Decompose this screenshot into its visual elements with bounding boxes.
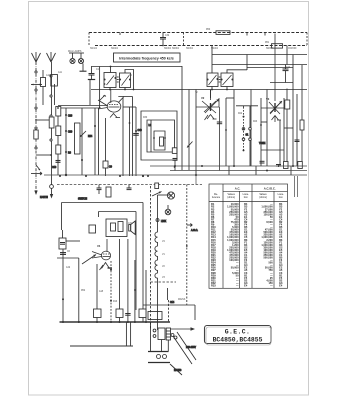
wire dashed AGC line [186, 185, 188, 306]
heavy earth bus bottom [60, 322, 171, 346]
mid-left component cluster [52, 107, 99, 177]
junction dots on bus [59, 165, 294, 177]
wire second bus [70, 345, 133, 347]
svg-text:tion: tion [244, 196, 249, 199]
wire [188, 90, 190, 171]
wire dashed drop [168, 300, 170, 322]
svg-text:C24: C24 [286, 67, 291, 69]
wire drop from dashed bus [211, 46, 213, 74]
wire [194, 305, 196, 320]
terminal dots T2 secondary [221, 79, 234, 81]
wire R52 lead [78, 258, 80, 322]
dial lamp L2 [69, 53, 84, 64]
switch arrow [80, 131, 86, 137]
tuning arrow T1 sec [122, 76, 130, 86]
wire V4 cathode lead [96, 264, 98, 322]
junction dot [186, 245, 188, 247]
wire earth down lead [51, 62, 53, 185]
wire loop top [62, 202, 144, 204]
svg-text:R23: R23 [253, 121, 258, 123]
wire drop right of table 2 [297, 176, 299, 197]
svg-text:(ohms): (ohms) [259, 196, 267, 199]
wire [143, 304, 195, 306]
padder capacitor [172, 148, 177, 154]
wire to lower bus [125, 322, 127, 346]
wire [54, 84, 56, 105]
svg-text:SW1/4: SW1/4 [90, 48, 98, 50]
below-chassis components [40, 185, 198, 323]
svg-text:C16: C16 [52, 167, 57, 169]
wire [98, 212, 100, 218]
table rows text [211, 202, 283, 287]
table col line 4 [273, 191, 275, 288]
AGC arrow [187, 224, 193, 227]
wire heavy bus [60, 321, 171, 323]
capacitor C1 [88, 67, 95, 80]
capacitor C19 [295, 140, 300, 142]
trimmer capacitor [173, 159, 178, 171]
svg-text:R22: R22 [238, 113, 243, 115]
wire [42, 87, 44, 106]
wire to plug [171, 328, 193, 330]
resistor A2 [49, 117, 54, 128]
wire dashed dial-lamp bus lower [95, 45, 307, 47]
wire dashed chassis divider [57, 184, 202, 186]
wire volume feed [236, 105, 258, 107]
svg-text:DIAL LAMPS: DIAL LAMPS [68, 50, 82, 53]
wire [134, 260, 136, 322]
dropper ladder [166, 328, 170, 340]
wire V2 stem top [210, 90, 212, 99]
node contacts on earth lead [50, 75, 52, 141]
svg-text:ference: ference [212, 196, 221, 199]
wire to lower bus 2 [130, 322, 132, 346]
junction dots [62, 269, 147, 323]
svg-text:TONE: TONE [259, 143, 266, 145]
resistor inside 2 [118, 222, 123, 232]
wire link [284, 127, 293, 129]
junction dots [99, 45, 228, 109]
table header line 2 [209, 201, 288, 203]
selector terminal 2 [153, 335, 156, 338]
node tick [246, 33, 248, 36]
plug arrow [191, 327, 196, 330]
screening can [75, 123, 81, 154]
terminal circle earth [50, 185, 54, 189]
wire [266, 90, 268, 167]
fuse circle [157, 355, 161, 359]
switch arrow on aerial [36, 165, 40, 170]
wire [127, 239, 129, 322]
wire [226, 87, 228, 90]
capacitor C3 [103, 161, 108, 168]
wire drop [195, 176, 197, 185]
svg-text:R52: R52 [81, 290, 86, 292]
resistor R2 [56, 107, 61, 117]
switch contacts [242, 128, 251, 141]
valve V2 IF amplifier [196, 90, 222, 171]
wire grid feed [99, 67, 101, 108]
svg-text:A.G.C.: A.G.C. [191, 229, 198, 232]
IF transformer T1 primary box [104, 73, 116, 88]
coil winding line [150, 120, 152, 152]
heavy line lower 1 [148, 351, 169, 353]
wire [301, 65, 303, 166]
wire stub 3 [167, 340, 169, 352]
resistor R50 on dashed bus [216, 31, 230, 35]
wire dashed connector [183, 33, 185, 46]
oscillator core loop [154, 131, 165, 150]
earth arrow [51, 189, 53, 197]
resistor near bus 2 [116, 309, 123, 318]
resistor R40 box [148, 312, 162, 320]
capacitor C32 on dashed bus [160, 33, 166, 46]
wire [132, 97, 134, 177]
svg-text:R51: R51 [265, 42, 270, 44]
wire dashed C21 [110, 261, 112, 322]
oscillator inner loop [147, 120, 175, 152]
antenna earth symbol [47, 52, 56, 62]
node contacts on aerial lead [35, 71, 37, 149]
wire [129, 107, 131, 176]
junction dot [135, 130, 137, 132]
wire dashed vertical [150, 186, 152, 330]
resistor R4 [56, 145, 61, 154]
svg-text:C40: C40 [138, 130, 143, 132]
wire [249, 106, 251, 166]
table col line 3 [251, 184, 253, 288]
right upper section [207, 46, 307, 99]
core lines T1 [117, 77, 119, 82]
wire [233, 90, 235, 167]
valve V1 triode-hexode [98, 90, 133, 118]
IF transformer T2 secondary box [221, 73, 233, 87]
wave switch tie 2 [36, 154, 51, 156]
wire [157, 195, 159, 224]
wire flex diagonal 1 [177, 332, 196, 360]
wire [57, 108, 59, 175]
svg-text:LINK: LINK [161, 221, 167, 223]
switch labels under dashed bus [90, 29, 297, 50]
svg-text:200-250V: 200-250V [186, 347, 196, 349]
wire lamp earth lead [82, 64, 84, 72]
wave switch tie [36, 119, 51, 121]
wire row bus under IF [91, 89, 307, 91]
capacitor C4 [276, 164, 281, 167]
svg-text:R54: R54 [88, 136, 93, 138]
wire loop left [61, 203, 63, 231]
table header text [235, 187, 276, 191]
wire drop right of table [294, 176, 296, 197]
svg-text:A.C./D.C.: A.C./D.C. [264, 187, 276, 191]
aerial arrow end [34, 191, 37, 196]
resistor near bus 3 [139, 309, 146, 318]
wire [292, 55, 294, 167]
wire tie [123, 106, 136, 108]
title box G.E.C. [205, 326, 272, 346]
terminal dots T1 primary [104, 77, 117, 85]
node tick [264, 33, 266, 36]
svg-text:V1: V1 [103, 94, 107, 98]
right section verticals [182, 55, 304, 177]
link terminal [156, 219, 159, 222]
core lines T2 [219, 77, 221, 82]
wire [81, 108, 83, 175]
wire link [226, 97, 234, 99]
svg-text:EARTH: EARTH [40, 196, 48, 199]
wire bus [150, 165, 307, 167]
valve V4 output tetrode [82, 239, 112, 270]
svg-text:SWITCH: SWITCH [78, 199, 87, 201]
resistor R26 [285, 100, 290, 109]
svg-text:SW3/4: SW3/4 [164, 48, 172, 50]
svg-text:tion: tion [279, 196, 284, 199]
wire drop [246, 55, 248, 71]
svg-text:G.E.C.: G.E.C. [225, 329, 250, 336]
wire aerial dash-dot lead [35, 62, 37, 191]
wire below C6 [62, 249, 64, 322]
wire [42, 70, 44, 78]
resistor chain dots [225, 116, 262, 152]
svg-text:(ohms): (ohms) [227, 196, 235, 199]
resistor A1 [34, 130, 38, 139]
terminal dots T1 secondary [119, 79, 131, 81]
svg-text:A10: A10 [46, 74, 51, 77]
svg-text:C26: C26 [68, 116, 73, 118]
svg-text:V2: V2 [201, 96, 205, 100]
capacitor C25 [127, 185, 132, 190]
resistor R22 dashed [243, 107, 245, 151]
coupling box [106, 219, 127, 237]
wire bus [170, 170, 307, 172]
wire [105, 168, 107, 176]
pilot lamp circle [167, 192, 174, 199]
wire flex diagonal 3 [170, 364, 182, 375]
wire [89, 80, 91, 105]
junction dots [57, 107, 96, 176]
svg-text:A19: A19 [66, 266, 71, 269]
svg-text:C20: C20 [68, 132, 73, 134]
table col line 1 [222, 184, 224, 288]
output stage cluster [57, 219, 147, 346]
wire [181, 66, 183, 170]
resistor R3 [56, 126, 61, 136]
IF transformer T2 primary box [207, 73, 218, 87]
wire [250, 90, 252, 167]
aerial cross arrow upper [31, 84, 42, 86]
wire secondary top loop T2 [227, 70, 247, 73]
wire [124, 88, 126, 90]
fuse circle 2 [163, 355, 167, 359]
wire heater feeds [167, 288, 169, 300]
wire [122, 98, 124, 176]
wire [286, 89, 288, 167]
main horizontal buses [44, 165, 307, 197]
wire [225, 98, 227, 166]
wire [65, 108, 67, 175]
wire inner loop [99, 211, 137, 213]
capacitor C24 [283, 65, 289, 83]
wire T2 bottoms [211, 87, 213, 90]
wire stub [150, 322, 152, 352]
capacitor C6 box [59, 238, 66, 249]
resistor near bus A14 [94, 309, 102, 318]
wire [98, 108, 100, 175]
wire stub [255, 166, 257, 175]
svg-text:SW5/4: SW5/4 [266, 48, 274, 50]
wire link [261, 121, 267, 123]
wire [135, 212, 137, 311]
resistor box C30 [89, 225, 96, 233]
switch arm [100, 95, 105, 101]
table header line 1 [223, 190, 288, 192]
resistor A10 [41, 78, 46, 87]
wire tie [66, 240, 80, 242]
junction dots [35, 119, 52, 156]
scattered component labels [46, 67, 291, 303]
wire V1 cathode drop [105, 118, 107, 161]
wire [195, 90, 197, 177]
resistor by bus [284, 162, 289, 169]
svg-text:A.C.: A.C. [235, 187, 241, 191]
voltage selector box [158, 328, 165, 340]
wire lamp feeds [158, 194, 172, 196]
svg-text:R50: R50 [206, 29, 211, 31]
svg-text:MAINS: MAINS [174, 369, 182, 372]
wire [119, 239, 121, 322]
wire tie lower [57, 257, 79, 259]
IF transformer T1 secondary box [120, 73, 131, 88]
wire dashed left end [88, 33, 90, 46]
switch arm to lamp [152, 192, 162, 197]
capacitor C15 [97, 185, 102, 195]
wire stub [228, 166, 230, 175]
svg-text:A18: A18 [99, 290, 104, 293]
lamp earth bar [80, 70, 87, 72]
wire left bus [58, 105, 107, 107]
aerial cross arrow [31, 172, 42, 175]
terminal dots T2 primary [207, 78, 219, 81]
wire dashed dial-lamp bus upper [89, 32, 307, 34]
plug pin circle [171, 334, 174, 337]
tuning arrow T1 [107, 76, 115, 86]
svg-text:C32: C32 [165, 35, 170, 37]
resistor R51 on lower dashed bus [272, 44, 283, 48]
wire secondary top loop [125, 70, 134, 90]
svg-text:R30: R30 [143, 117, 148, 119]
antenna aerial symbol [32, 52, 41, 62]
capacitor below C6 [60, 253, 66, 255]
wire drop [286, 46, 288, 65]
wire [270, 82, 293, 84]
labels heater chain [162, 241, 166, 279]
wire T1 top stem [110, 67, 112, 73]
capacitor C18 [260, 161, 265, 163]
svg-text:SW2/4: SW2/4 [111, 48, 119, 50]
wire stub 2 [161, 340, 163, 352]
resistor R31 [106, 187, 111, 197]
wire [247, 67, 293, 69]
wire HT top line [212, 54, 307, 56]
wire dashed horizontal [151, 281, 177, 283]
wire [167, 205, 169, 209]
wire loop right [142, 203, 144, 323]
wire [135, 107, 137, 176]
wire [94, 108, 96, 175]
wire second top line [212, 64, 307, 66]
svg-text:R13: R13 [113, 301, 118, 303]
wire T1 bottoms [109, 88, 111, 90]
oscillator outer loop [141, 111, 177, 160]
mains power cluster [143, 288, 196, 375]
resistor A11 [51, 75, 58, 87]
valve V3 detector [261, 34, 284, 123]
tuning arrow T2 sec [223, 75, 232, 85]
table frame [209, 184, 288, 288]
svg-text:MAINS: MAINS [178, 298, 186, 301]
resistance table [209, 184, 288, 288]
svg-text:V3: V3 [266, 97, 270, 101]
svg-text:R33: R33 [211, 283, 216, 287]
capacitor on bus [125, 314, 130, 316]
wire [279, 120, 281, 166]
svg-text:Intermediate frequency 450 kc/: Intermediate frequency 450 kc/s [119, 57, 174, 61]
wire cluster top [58, 107, 99, 109]
junction dots [129, 122, 176, 177]
node tick [119, 33, 121, 36]
heater chain coil [155, 224, 158, 330]
wire [62, 230, 64, 238]
wire [296, 94, 298, 166]
heavy line lower 2 [148, 362, 170, 364]
plug pin circle 2 [174, 336, 177, 339]
table col line 2 [239, 191, 241, 288]
second mid cluster oscillator section [103, 97, 193, 178]
heater chain dashed enclosure [151, 183, 177, 330]
tuning arrow T2 [209, 75, 217, 85]
wire stub [290, 166, 292, 175]
wire [260, 98, 262, 166]
capacitor bars in C6 [60, 243, 65, 245]
svg-text:V4: V4 [97, 244, 101, 248]
label box Intermediate frequency 450 kc/s [114, 53, 181, 62]
switch arrow S3 [187, 142, 193, 148]
wire top feed [91, 66, 182, 68]
speaker symbol [129, 221, 136, 235]
svg-text:ON/OFF: ON/OFF [288, 48, 297, 50]
pilot lamp circle 2 [165, 209, 171, 215]
wire [283, 98, 285, 166]
wire main earth bus [44, 174, 307, 176]
capacitor C40 [133, 134, 139, 136]
wire flex diagonal 2 [173, 336, 192, 364]
svg-text:BC4850,BC4855: BC4850,BC4855 [213, 337, 263, 344]
wire dashed right end [306, 33, 308, 46]
resistor inside [111, 223, 116, 231]
resistor by bus 2 [298, 162, 303, 169]
svg-text:SW3/4: SW3/4 [186, 48, 194, 50]
dial lamp L1 [70, 53, 75, 64]
coil tap mark [160, 137, 164, 146]
svg-text:SW6/4: SW6/4 [172, 48, 180, 50]
wire link [261, 149, 284, 151]
wire [145, 270, 147, 322]
selector terminal [153, 329, 156, 332]
capacitor C16 [56, 161, 61, 163]
component on dashed edge [155, 183, 159, 189]
resistor R27 [300, 120, 304, 130]
svg-text:C14: C14 [170, 302, 175, 304]
